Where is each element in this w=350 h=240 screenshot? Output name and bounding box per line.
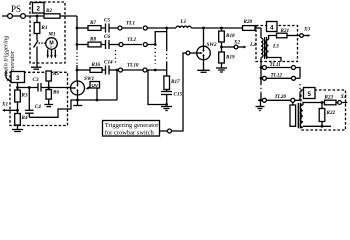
resistor R2 [44, 14, 60, 18]
wire TL10 to rail [147, 69, 167, 71]
wire secondary bottom [303, 125, 331, 127]
ground R4 [12, 129, 23, 131]
node rail R3 [16, 86, 19, 89]
svg-text:R1: R1 [42, 25, 48, 31]
resistor R17 [164, 76, 170, 90]
terminal TL10 left [119, 68, 123, 72]
motor 3-phase arrows [47, 50, 49, 57]
terminal X3 [300, 34, 304, 38]
wire box3 rail [18, 87, 39, 89]
resistor R21 [277, 33, 288, 38]
wire X1 arrow [4, 109, 18, 111]
svg-text:L1: L1 [180, 19, 187, 25]
svg-text:R23: R23 [325, 95, 334, 101]
svg-text:L3: L3 [272, 44, 279, 50]
svg-text:PS: PS [11, 4, 21, 14]
svg-text:C4: C4 [35, 104, 41, 110]
ground SW2 [197, 69, 210, 71]
ground R19 [216, 67, 227, 69]
wire TL2 riser bus [147, 32, 166, 45]
svg-text:SW2: SW2 [207, 42, 217, 48]
terminal TL20 left [262, 98, 266, 102]
svg-text:C15: C15 [174, 92, 183, 98]
svg-text:R3: R3 [22, 93, 28, 99]
wire TL10 ground drop [148, 70, 167, 105]
wire TL20 line [266, 99, 290, 101]
ground SW1 [77, 100, 79, 106]
resistor R22 [321, 103, 323, 109]
node SW2 tap [202, 27, 205, 30]
svg-text:TL10: TL10 [127, 63, 139, 69]
svg-text:R20: R20 [244, 19, 253, 25]
dashed enclosure 3 [10, 72, 68, 125]
svg-text:X2: X2 [233, 40, 240, 46]
box UV [90, 82, 100, 89]
block triggering generator for crowbar switch [103, 121, 160, 137]
resistor R4 [15, 114, 21, 126]
wire TL20 row [258, 99, 262, 101]
svg-text:5: 5 [307, 91, 311, 98]
resistor R16 [90, 68, 102, 73]
wire R23 to X4 [336, 102, 338, 104]
node R18 tap [220, 27, 223, 30]
svg-text:for crowbar switch: for crowbar switch [105, 129, 155, 136]
capacitor C14 [102, 69, 106, 71]
node TL10 tap [76, 69, 79, 72]
svg-text:C5: C5 [104, 18, 110, 24]
resistor R5 [46, 71, 51, 81]
svg-text:R5: R5 [53, 71, 59, 77]
wire L3 top to R21 [269, 36, 277, 40]
wire TL1 line [122, 27, 142, 29]
svg-text:R6: R6 [53, 90, 59, 96]
wire trigger to SW2 [190, 52, 197, 54]
svg-text:TL1: TL1 [126, 21, 135, 27]
node SW1 return [76, 99, 79, 102]
wire secondary top [303, 103, 322, 106]
terminal TL11 right [292, 66, 296, 70]
svg-text:L2: L2 [249, 42, 256, 48]
svg-text:R8: R8 [90, 36, 96, 42]
wire TL20 bracket [295, 99, 300, 101]
svg-text:R16: R16 [92, 62, 101, 68]
svg-text:3~: 3~ [49, 45, 53, 49]
svg-text:2: 2 [36, 6, 40, 13]
svg-text:R2: R2 [46, 8, 52, 14]
svg-text:R4: R4 [22, 115, 28, 121]
node secondary bottom [321, 125, 324, 128]
svg-text:X3: X3 [303, 27, 310, 33]
resistor R3 [17, 88, 19, 91]
svg-text:C14: C14 [104, 60, 113, 66]
svg-text:R19: R19 [226, 55, 235, 61]
ellipsis dots left column [115, 50, 117, 65]
wire to TL1 connector [109, 27, 118, 29]
svg-text:TL2: TL2 [127, 37, 136, 43]
terminal TL20 right [291, 98, 295, 102]
resistor R23 [325, 100, 337, 105]
arrow X4 [342, 102, 346, 104]
terminal circle PS1 [8, 14, 13, 19]
arrow UV to SW1 [88, 87, 91, 88]
terminal TL12 left [262, 76, 266, 80]
ground R6 [44, 104, 53, 106]
node TL1 tap [76, 27, 79, 30]
wire C4 return staircase [29, 100, 117, 117]
wire TL11 bracket [296, 68, 301, 79]
terminal X4 [338, 101, 342, 105]
node R5 R6 [47, 86, 50, 89]
wire TL11 line [266, 67, 291, 69]
node X2 tap [220, 46, 223, 49]
svg-text:R17: R17 [171, 79, 180, 85]
node rail TL10 [154, 69, 157, 72]
block box 4 [267, 22, 278, 32]
svg-text:C6: C6 [104, 34, 110, 40]
wire crowbar to SW2 trigger [172, 53, 187, 131]
wire TL2 line [123, 44, 142, 46]
svg-text:UV: UV [92, 83, 99, 88]
transformer core [264, 37, 266, 59]
svg-text:M1: M1 [47, 32, 56, 38]
wire box3 stem [17, 83, 19, 88]
transformer CVR secondary [300, 105, 303, 127]
terminal TL1 left [118, 26, 122, 30]
node C15 ground [165, 103, 168, 106]
resistor R18 [221, 28, 223, 31]
transformer CVR core [297, 103, 299, 128]
ground TL20 [260, 100, 262, 106]
wire L1 to R20 [191, 27, 242, 29]
wire TL2 row [77, 44, 88, 46]
wire R21 to X3 [287, 35, 300, 37]
svg-text:R18: R18 [226, 33, 235, 39]
node TL12 tap [260, 77, 263, 80]
node rail top [165, 27, 168, 30]
block box 2 [33, 3, 45, 14]
svg-text:4: 4 [270, 24, 274, 31]
terminal TL10 right [143, 68, 147, 72]
node TL10 return tap [116, 69, 119, 72]
svg-text:X1: X1 [1, 102, 8, 108]
block box 5 [304, 88, 316, 99]
svg-text:R21: R21 [281, 28, 290, 34]
capacitor C5 [101, 27, 106, 29]
node C4 tap [28, 86, 31, 89]
wire TL10 line [123, 69, 144, 71]
wire TL12 line [266, 77, 291, 79]
svg-text:TL11: TL11 [270, 62, 282, 68]
wire L2 rail down [260, 58, 262, 85]
wire SW2 ground stem [203, 60, 205, 71]
capacitor C6 [101, 44, 106, 46]
terminal TL12 right [292, 76, 296, 80]
arrow to box 3 [6, 71, 8, 80]
svg-text:R7: R7 [90, 20, 96, 26]
wire TL1 row [77, 27, 88, 29]
resistor R1 [36, 16, 38, 23]
wire L3 bottom [269, 58, 281, 62]
ellipsis dots right column [154, 48, 156, 64]
wire to R23 [322, 102, 325, 104]
arrow X3 [303, 35, 308, 37]
terminal crowbar [168, 129, 172, 133]
wire SW1 bottom stem [77, 95, 79, 100]
svg-text:R22: R22 [327, 110, 336, 116]
wire PS input [2, 15, 77, 17]
terminal TL1 right [143, 26, 147, 30]
dashed enclosure 4 [256, 26, 298, 62]
ground below contact [31, 66, 42, 68]
wire X2 [222, 46, 235, 48]
svg-text:Triggering generator: Triggering generator [105, 122, 160, 129]
node UV return [96, 99, 99, 102]
terminal TL2 left [119, 43, 123, 47]
dashed enclosure 2 [30, 2, 65, 63]
terminal SW2 trigger [186, 51, 190, 55]
wire TL12 bracket [296, 77, 301, 79]
terminal TL11 left [262, 66, 266, 70]
svg-text:C3: C3 [33, 77, 39, 83]
capacitor C3 [37, 83, 39, 92]
dashed enclosure 5 [301, 90, 346, 130]
capacitor C4 [28, 88, 30, 111]
wire to TL2 connector [109, 44, 119, 46]
svg-text:TL12: TL12 [271, 73, 283, 79]
wire TL10 return drop [116, 70, 118, 100]
terminal X2 [234, 45, 238, 49]
ellipsis bracket column [299, 84, 301, 93]
wire TL1 to rail [147, 27, 176, 29]
wire main vertical rail x77 [76, 16, 78, 49]
wire SW2 stem [203, 28, 205, 46]
terminal circle PS2 [21, 14, 26, 19]
resistor R6 [48, 88, 50, 90]
wire TL10 row [77, 69, 90, 71]
block box 3 [11, 72, 25, 83]
node R22 top [321, 101, 324, 104]
wire to TL10 connector [109, 69, 119, 71]
contact K (motor driven) [34, 41, 39, 48]
wire UV stem [96, 88, 98, 100]
resistor R20 [243, 26, 256, 31]
transformer CVR primary [292, 102, 294, 105]
arrow X2 [238, 46, 244, 48]
resistor R8 [88, 42, 101, 47]
wire R20 to L2 [255, 27, 261, 29]
wire right rail [166, 28, 168, 50]
ground C15 [161, 106, 172, 108]
resistor R7 [88, 26, 101, 31]
node X1 tap [16, 109, 19, 112]
svg-text:TL20: TL20 [275, 94, 287, 100]
terminal TL2 right [143, 43, 147, 47]
wire crowbar out [160, 130, 168, 132]
node TL11 tap [260, 66, 263, 69]
resistor R19 [219, 52, 225, 63]
node TL20 ground tap [259, 99, 262, 102]
node TL2 tap [76, 43, 79, 46]
node junction R1 top [36, 15, 39, 18]
capacitor C15 [166, 90, 168, 92]
svg-text:3: 3 [16, 75, 20, 82]
